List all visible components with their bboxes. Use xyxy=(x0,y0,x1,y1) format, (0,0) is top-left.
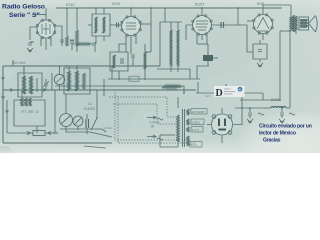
svg-text:2V 6AMP: 2V 6AMP xyxy=(192,110,205,114)
svg-text:AVC: AVC xyxy=(205,94,211,98)
svg-text:W: W xyxy=(151,125,154,129)
svg-text:6.3 V: 6.3 V xyxy=(192,128,199,132)
svg-text:6V6: 6V6 xyxy=(257,1,265,6)
svg-text:Serie " S": Serie " S" xyxy=(9,12,40,19)
svg-text:D: D xyxy=(216,88,223,99)
svg-text:25.000Ω: 25.000Ω xyxy=(166,88,178,92)
svg-text:600Ω: 600Ω xyxy=(271,98,280,102)
svg-text:6TA7: 6TA7 xyxy=(66,2,76,7)
svg-text:6U5T: 6U5T xyxy=(195,2,205,7)
svg-text:0.1: 0.1 xyxy=(88,102,93,106)
svg-text:2.5E3: 2.5E3 xyxy=(192,120,200,124)
svg-text:lector de Mexico: lector de Mexico xyxy=(259,131,296,137)
svg-text:5 V≈: 5 V≈ xyxy=(191,143,198,147)
svg-text:P.T. 497: P.T. 497 xyxy=(22,110,34,114)
svg-text:Radio Geloso: Radio Geloso xyxy=(2,4,45,11)
svg-text:6D6T: 6D6T xyxy=(112,2,122,6)
svg-text:Circuito enviado por un: Circuito enviado por un xyxy=(259,124,312,130)
svg-text:CAV 6M6: CAV 6M6 xyxy=(12,61,26,65)
svg-text:2.2K¼: 2.2K¼ xyxy=(104,126,113,130)
svg-text:Gracias: Gracias xyxy=(263,138,281,144)
svg-text:H-500Ω: H-500Ω xyxy=(84,107,96,111)
